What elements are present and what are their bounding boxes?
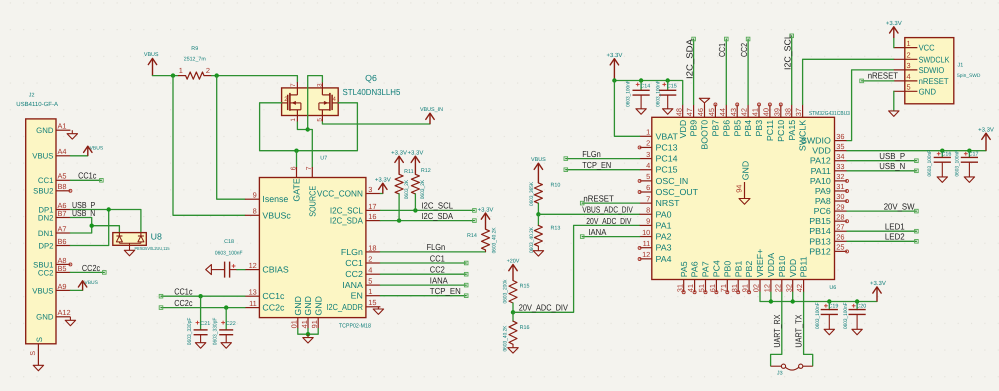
svg-text:VDDA: VDDA [766,253,776,278]
svg-text:TCP_EN: TCP_EN [582,160,611,170]
svg-text:J2: J2 [29,92,35,98]
svg-text:I2C_ADDR: I2C_ADDR [327,302,363,312]
svg-text:GND: GND [36,126,54,135]
svg-text:DN1: DN1 [38,229,54,238]
no-connect J2 pin A8 [69,263,72,266]
svg-text:10: 10 [642,228,650,237]
svg-text:31: 31 [836,182,844,191]
svg-text:1: 1 [646,128,650,137]
svg-text:26: 26 [836,233,844,242]
svg-text:42: 42 [795,284,804,292]
svg-text:4: 4 [907,72,911,81]
svg-text:11: 11 [643,239,651,248]
svg-text:CC1: CC1 [717,43,727,57]
svg-text:UART_TX: UART_TX [794,314,804,347]
svg-text:C14: C14 [640,83,650,89]
svg-text:11: 11 [249,299,257,308]
svg-text:B8: B8 [58,182,67,191]
svg-text:36: 36 [836,132,844,141]
wire J1 GND [893,91,895,111]
svg-text:GND: GND [740,161,750,181]
wire +3.3V rail to VDD pin 48 [614,81,682,105]
svg-text:VCC: VCC [919,43,935,53]
svg-text:SWDCLK: SWDCLK [919,54,950,64]
power +3.3V right rail [978,127,994,151]
svg-text:0603_100nF: 0603_100nF [843,303,849,330]
svg-text:VREF+: VREF+ [755,249,765,278]
svg-text:CC1: CC1 [345,258,363,268]
resistor R12 0603_2K pullup [411,168,430,210]
ground at C20 [852,329,862,335]
MCU U6 STM32G431CBUx [640,105,850,293]
wire FLGn to STM32 PC14 [564,157,640,161]
svg-text:4: 4 [368,266,372,275]
junction USB_P [107,207,111,211]
svg-text:41: 41 [300,320,309,328]
wire TCPP02 GND pins [298,329,318,335]
svg-text:VBUS: VBUS [32,152,53,161]
wire +3.3V to VBAT pin 1 [614,81,639,137]
power +3.3V at R11 [391,149,407,174]
svg-text:4: 4 [646,161,650,170]
resistor R14 0603_40.2K pullup [467,227,498,253]
junction 20V_ADC_DIV [511,310,515,314]
svg-text:20V_SW: 20V_SW [884,202,915,212]
wire UART_TX from PB11 [804,292,813,366]
svg-text:U6: U6 [829,285,836,291]
svg-text:CC2: CC2 [38,268,54,277]
svg-text:PB9: PB9 [689,120,699,137]
svg-text:40: 40 [762,108,771,116]
svg-text:2: 2 [206,66,210,75]
wire I2C_SDA riser at PB9 [692,37,696,104]
wire USB_N net [70,218,119,232]
svg-text:0603_100nF: 0603_100nF [626,80,632,107]
svg-text:VDD: VDD [788,259,798,278]
ground at C15 [663,109,673,115]
svg-text:PA9: PA9 [815,186,831,196]
svg-text:USB_N: USB_N [879,161,905,171]
connector J1 5pin_SWD [894,38,981,104]
wire USB_N at PA11 [847,169,918,173]
wire Q6 sources to right FET drain [297,76,322,130]
svg-text:R15: R15 [520,284,530,290]
wire gate net to TCPP02 GATE pin [296,151,298,167]
wire VBUSc sense to TCPP02 pin 8 [173,76,245,216]
svg-text:2: 2 [368,254,372,263]
svg-text:R12: R12 [421,168,431,174]
svg-text:SBU2: SBU2 [33,187,53,196]
svg-text:CC2c: CC2c [262,303,285,313]
resistor R10 0603_365K [529,182,560,215]
svg-text:PB4: PB4 [743,120,753,137]
svg-text:27: 27 [836,222,844,231]
svg-text:9: 9 [253,191,257,200]
svg-text:nRESET: nRESET [919,76,949,86]
svg-text:R13: R13 [551,226,561,232]
svg-text:3: 3 [368,185,372,194]
svg-text:C15: C15 [667,83,677,89]
svg-text:02: 02 [752,284,761,292]
junction CC2c-C22 [224,305,228,309]
svg-text:0603_100nF: 0603_100nF [215,251,243,257]
power flag VBUS at R10 [531,157,546,183]
svg-text:nRESET: nRESET [583,194,614,204]
capacitor C19 0603_100nF [815,302,838,330]
svg-text:CC2c: CC2c [82,263,101,273]
junction C19 [827,299,831,303]
svg-text:VBUS_ADC_DIV: VBUS_ADC_DIV [582,205,633,215]
svg-text:VBUSc: VBUSc [262,210,291,220]
svg-text:I2C_SCL: I2C_SCL [330,205,363,215]
svg-text:GND: GND [919,86,936,96]
svg-text:I2C_SDA: I2C_SDA [684,39,694,79]
svg-text:SDWIO: SDWIO [919,65,945,75]
svg-text:B7: B7 [58,209,67,218]
junction R9-Isense [215,73,219,77]
svg-text:0603_200k: 0603_200k [502,279,508,303]
svg-text:PC15: PC15 [656,165,678,175]
svg-text:3: 3 [646,150,650,159]
svg-text:TCPP02-M18: TCPP02-M18 [339,323,372,330]
capacitor C15 0603_100nF [655,80,676,108]
svg-text:PB10: PB10 [777,256,787,278]
ground up at BOOT0 pin [699,98,709,104]
svg-text:IANA: IANA [342,280,363,290]
svg-text:2512_7m: 2512_7m [184,57,206,63]
svg-text:C20: C20 [856,304,866,310]
svg-text:0603_365K: 0603_365K [529,182,535,206]
svg-text:CC1: CC1 [430,253,445,263]
svg-text:VDD: VDD [812,146,831,156]
wire DN1 to USB_N junction [70,226,91,233]
svg-text:+3.3V: +3.3V [391,149,407,156]
junction GND pins [306,332,310,336]
svg-text:nRESET: nRESET [868,71,899,81]
svg-text:PA0: PA0 [656,209,672,219]
svg-text:C21: C21 [200,321,210,327]
ground at C22 [221,343,231,349]
wire CC2c net [161,307,245,309]
svg-text:22: 22 [773,284,782,292]
wire I2C_SCL net [380,209,474,211]
svg-text:13: 13 [249,288,257,297]
svg-text:17: 17 [368,202,376,211]
svg-text:FLGn: FLGn [427,242,446,252]
svg-text:Q6: Q6 [365,73,377,83]
svg-text:0603_40.2K: 0603_40.2K [529,227,535,253]
wire CC1 riser at PB6 [725,37,729,104]
svg-text:CC1c: CC1c [262,291,285,301]
junction C16 [940,149,944,153]
svg-text:PB5: PB5 [732,120,742,137]
svg-text:PC11: PC11 [765,120,775,141]
svg-text:I2C_SCL: I2C_SCL [421,201,453,211]
capacitor C14 0603_100nF [626,80,651,108]
wire FLGn net [380,251,485,253]
svg-text:3: 3 [316,83,323,87]
svg-text:A12: A12 [58,308,71,317]
svg-text:PB2: PB2 [744,261,754,278]
svg-text:PC10: PC10 [776,120,786,142]
svg-text:VBUS_IN: VBUS_IN [420,107,443,113]
svg-text:29: 29 [836,202,844,211]
svg-text:PB11: PB11 [799,256,809,277]
svg-text:A4: A4 [58,147,67,156]
capacitor C20 0603_100nF [843,302,866,330]
svg-text:39: 39 [772,108,781,116]
svg-text:16: 16 [368,212,376,221]
svg-text:43: 43 [729,108,738,116]
wire VBUS_ADC_DIV to STM32 PA0 [538,213,639,215]
wire +3.3V rail at VDD pin 35 [847,150,986,152]
svg-text:+20V: +20V [507,258,520,264]
svg-text:Isense: Isense [262,194,288,204]
junction VDD23 [791,299,795,303]
resistor R13 0603_40.2K [529,214,560,253]
svg-text:15: 15 [368,298,376,307]
svg-text:91: 91 [310,320,319,328]
wire Isense to TCPP02 pin 9 [217,76,245,200]
svg-text:TCP_EN: TCP_EN [430,286,461,296]
wire C18 to CBIAS pin 12 [237,269,245,271]
svg-text:FLGn: FLGn [341,247,363,257]
svg-text:DN2: DN2 [38,213,54,222]
svg-text:J1: J1 [958,63,964,69]
svg-text:IANA: IANA [430,275,448,285]
svg-text:R11: R11 [404,169,414,175]
svg-text:0603_330pF: 0603_330pF [187,317,193,345]
svg-text:USB_P: USB_P [879,151,905,161]
ground at TCPP02 I2C_ADDR pin [373,307,383,315]
svg-text:VBUS: VBUS [84,280,98,286]
svg-text:CC2: CC2 [345,269,363,279]
svg-text:GND: GND [313,296,323,316]
wire SWCLK riser to J1 [803,59,894,104]
svg-text:SOURCE: SOURCE [307,186,317,217]
svg-text:VDD: VDD [678,120,688,139]
svg-text:48: 48 [674,108,683,116]
svg-text:CC1c: CC1c [174,286,193,296]
ground at TCPP02 GND pins [303,334,313,343]
svg-text:1: 1 [179,66,183,75]
svg-text:5: 5 [316,118,323,122]
junction C20 [855,299,859,303]
power flag VBUS top left [144,52,159,76]
svg-text:+3.3V: +3.3V [478,206,494,213]
resistor R9 2512_7m [178,46,212,79]
wire Q6 output to VBUS_IN [322,122,430,124]
svg-text:0603_100nF: 0603_100nF [655,80,661,107]
junction VBUS_ADC_DIV [536,212,540,216]
ground at C16 [937,177,947,183]
ground at C17 [964,177,974,183]
svg-text:0603_100nF: 0603_100nF [954,150,960,177]
svg-text:PA5: PA5 [679,261,689,277]
svg-text:LED2: LED2 [885,232,905,242]
svg-text:CC1: CC1 [38,176,54,185]
svg-text:PA6: PA6 [690,261,700,277]
capacitor C17 0603_100nF [954,150,978,177]
power +20V at R15 [507,258,520,280]
wire nRESET to STM32 NRST [580,201,639,205]
wire nRESET at J1 [860,79,894,83]
ground at U8 [124,245,134,256]
svg-text:A7: A7 [58,224,67,233]
svg-text:VBUS: VBUS [32,286,53,295]
wire CC2 net [380,273,466,275]
svg-text:USB4110-GF-A: USB4110-GF-A [16,101,58,108]
svg-text:PA12: PA12 [810,156,831,166]
svg-text:CC2: CC2 [430,265,445,275]
svg-text:C16: C16 [942,152,952,158]
svg-text:R16: R16 [520,325,530,331]
svg-text:GND: GND [36,313,54,322]
svg-text:PA3: PA3 [656,243,672,253]
svg-text:FLGn: FLGn [582,149,601,159]
svg-text:18: 18 [368,243,376,252]
junction VDDA [769,299,773,303]
svg-text:VBUS: VBUS [90,145,104,151]
wire TCP_EN to STM32 PC15 [564,168,640,172]
svg-text:+3.3V: +3.3V [606,52,622,59]
no-connect pins STM32 right [846,179,849,182]
wire 20V_SW at PC6 [847,209,918,213]
svg-text:STL40DN3LLH5: STL40DN3LLH5 [343,87,401,97]
power +3.3V at TCPP02 VCC_CONN [375,177,391,194]
svg-text:5: 5 [646,172,650,181]
svg-text:UART_RX: UART_RX [772,314,782,347]
wire TCP_EN net [380,295,466,297]
svg-text:30: 30 [836,192,844,201]
svg-text:12: 12 [763,284,772,292]
svg-text:7: 7 [646,194,650,203]
svg-text:NRST: NRST [656,198,681,208]
svg-text:PB14: PB14 [809,226,831,236]
svg-text:20V_ADC_DIV: 20V_ADC_DIV [519,302,568,312]
svg-text:8: 8 [646,205,650,214]
svg-text:S: S [35,337,44,342]
svg-text:+3.3V: +3.3V [978,127,994,134]
wire UART_RX from PB10 [771,292,782,366]
svg-text:6: 6 [646,183,650,192]
svg-text:C22: C22 [226,321,236,327]
power flag VBUS at J2 pin A4 [70,145,103,156]
svg-text:STM32G431CBU3: STM32G431CBU3 [809,110,850,117]
svg-text:PA15: PA15 [787,120,797,141]
ground at J2 pin A1 [67,130,77,139]
wire VBUS to R9 [153,75,179,77]
svg-text:8: 8 [253,207,257,216]
svg-text:PC14: PC14 [656,154,678,164]
svg-text:35: 35 [836,142,844,151]
wire R9 to Q6 drain [212,76,298,82]
svg-text:GND: GND [293,296,303,316]
svg-text:U7: U7 [320,156,327,162]
svg-text:0603_2K: 0603_2K [404,179,410,199]
wire CC1c from J2 pin A5 [70,179,103,183]
svg-text:1: 1 [290,118,297,122]
svg-text:01: 01 [290,320,299,328]
svg-text:+3.3V: +3.3V [886,20,902,27]
svg-text:A1: A1 [58,122,67,131]
wire I2C_SCL riser at PA15 [790,34,794,105]
svg-text:PB6: PB6 [721,120,731,137]
svg-text:LED1: LED1 [885,222,905,232]
svg-text:BOOT0: BOOT0 [700,120,710,150]
svg-text:42: 42 [740,108,749,116]
svg-text:A9: A9 [58,282,67,291]
no-connect J2 pin B8 [69,189,72,192]
svg-text:7: 7 [290,83,297,87]
svg-text:0603_40.2K: 0603_40.2K [492,227,498,253]
no-connect pins STM32 top [714,103,717,106]
svg-text:47: 47 [685,108,694,116]
capacitor C21 0603_330pF [187,296,210,345]
junction CC1c-C21 [198,294,202,298]
svg-text:5: 5 [907,83,911,92]
junction I2C_SDA R11 [397,218,401,222]
svg-text:41: 41 [751,108,760,116]
resistor R15 0603_200k [502,279,529,312]
svg-text:PA7: PA7 [701,261,711,277]
junction USB_N [90,224,94,228]
svg-text:1: 1 [368,287,372,296]
svg-text:S: S [30,351,37,356]
junction gate net [294,149,298,153]
jumper J3 [771,364,813,377]
ESD protection diode U8 PESD5V0L2UU,115 [113,232,170,251]
wire Q6 gates [260,103,358,151]
wire I2C_SDA net [380,220,474,222]
svg-text:VCC_CONN: VCC_CONN [317,189,363,199]
ground at J2 shield pin S [33,365,43,371]
svg-text:34: 34 [836,152,844,161]
svg-text:0603_100nF: 0603_100nF [815,303,821,330]
power +3.3V above STM32 [606,52,622,81]
wire CC2c from J2 pin B5 [70,271,106,275]
svg-text:32: 32 [784,284,793,292]
power +3.3V at R12 [407,149,423,174]
svg-text:PA8: PA8 [815,196,831,206]
svg-text:VBUS: VBUS [144,52,159,58]
junction VBUS-VBUSc [171,73,175,77]
svg-text:PB7: PB7 [711,120,721,137]
svg-text:25: 25 [836,243,844,252]
svg-text:37: 37 [794,108,803,116]
svg-text:R9: R9 [191,46,198,52]
svg-text:OSC_IN: OSC_IN [656,176,689,186]
svg-text:IANA: IANA [588,227,606,237]
junction C17 [967,149,971,153]
svg-text:PC6: PC6 [814,206,831,216]
wire DP2 to USB_P junction [70,210,108,246]
svg-text:0603_100nF: 0603_100nF [927,150,933,177]
svg-text:C17: C17 [969,152,979,158]
svg-text:PA10: PA10 [810,176,831,186]
wire SWDIO to J1 [847,70,894,141]
svg-text:32: 32 [836,172,844,181]
ground at J1 [889,111,899,117]
svg-text:CC2: CC2 [739,43,749,57]
wire CC1 net [380,262,466,264]
wire IANA to STM32 PA2 [580,235,639,239]
capacitor C18 0603_100nF at CBIAS [211,239,243,277]
svg-text:PB15: PB15 [809,216,831,226]
svg-text:5: 5 [368,277,372,286]
ground at C19 [824,329,834,335]
svg-text:+3.3V: +3.3V [870,280,886,287]
